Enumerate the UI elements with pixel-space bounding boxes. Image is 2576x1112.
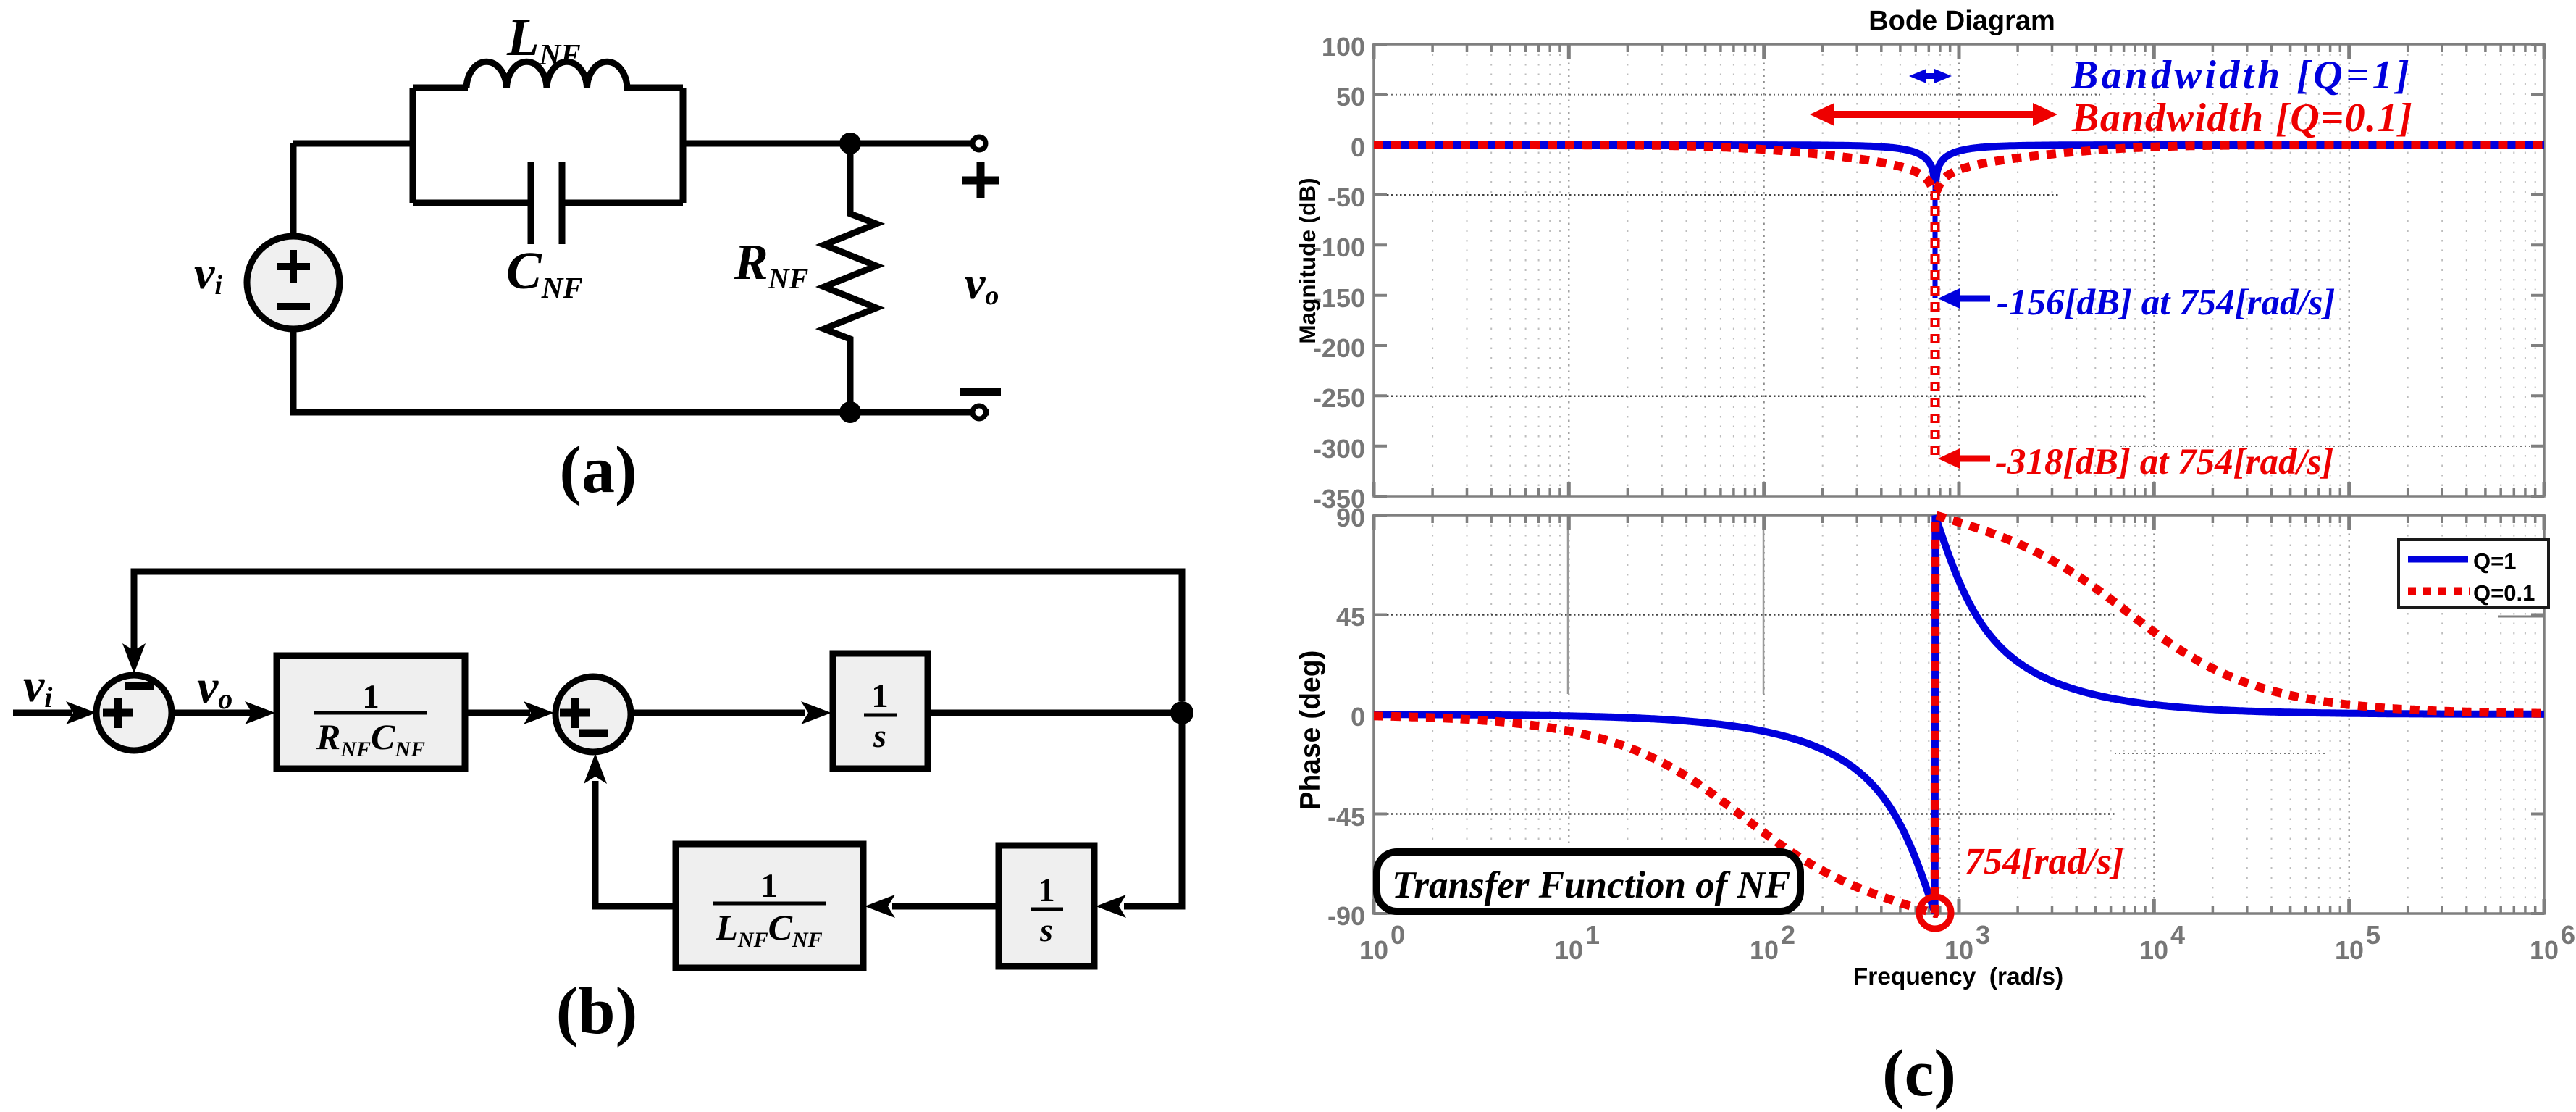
block 1/(RNF CNF)	[277, 656, 465, 769]
wire sum1 to vo	[172, 710, 252, 716]
svg-text:10: 10	[1750, 935, 1779, 965]
arrow into sum1	[66, 701, 96, 724]
svg-text:-156[dB] at 754[rad/s]: -156[dB] at 754[rad/s]	[1997, 283, 2335, 323]
svg-text:Q=1: Q=1	[2473, 548, 2516, 574]
minus mark output	[960, 388, 1001, 396]
svg-text:-100: -100	[1313, 233, 1365, 262]
wire integrator2 to LC block	[892, 903, 999, 910]
svg-text:1: 1	[1585, 920, 1600, 950]
curve magnitude Q=0.1 red notch spike	[1931, 191, 1940, 459]
node junction dot	[1170, 701, 1193, 724]
wire integrator1 to node	[928, 710, 1182, 716]
svg-text:Transfer Function of NF: Transfer Function of NF	[1392, 864, 1790, 906]
svg-text:10: 10	[2335, 935, 2364, 965]
wire source top lead	[290, 143, 297, 236]
wire LC box right edge	[680, 88, 687, 203]
annotation -318 dB arrow	[1938, 448, 1990, 469]
svg-text:(c): (c)	[1882, 1036, 1956, 1110]
wire node down to integrator2	[1124, 713, 1182, 906]
svg-text:45: 45	[1336, 602, 1365, 632]
tick labels	[1313, 32, 2575, 965]
node bottom junction	[839, 401, 861, 423]
svg-text:-318[dB] at 754[rad/s]: -318[dB] at 754[rad/s]	[1995, 442, 2333, 482]
svg-text:Bode Diagram: Bode Diagram	[1868, 6, 2055, 36]
svg-text:s: s	[873, 717, 886, 754]
annotation bandwidth arrow red	[1810, 103, 2057, 126]
svg-text:90: 90	[1336, 503, 1365, 532]
arrow up into sum2 bottom	[584, 753, 607, 784]
plus mark output	[962, 162, 999, 198]
svg-text:0: 0	[1390, 920, 1405, 950]
svg-text:s: s	[1039, 911, 1053, 948]
annotation bandwidth arrow blue	[1909, 69, 1952, 83]
voltage source vi	[247, 236, 340, 329]
svg-text:-150: -150	[1313, 283, 1365, 313]
svg-text:(a): (a)	[559, 432, 637, 506]
summing junction 1	[96, 675, 172, 751]
node top junction	[839, 133, 861, 154]
svg-text:4: 4	[2170, 920, 2185, 950]
block integrator2 1/s	[999, 845, 1094, 966]
arrow into integrator1	[801, 701, 831, 724]
arrow into block1	[245, 701, 275, 724]
axes tick marks	[1374, 44, 2544, 914]
legend	[2399, 540, 2548, 608]
wire bottom return	[290, 409, 989, 416]
capacitor C_NF	[528, 162, 534, 244]
svg-text:Phase (deg): Phase (deg)	[1295, 650, 1326, 810]
curve magnitude Q=1 blue notch spike	[1933, 185, 1938, 298]
svg-text:Bandwidth [Q=1]: Bandwidth [Q=1]	[2071, 53, 2412, 98]
wire outer feedback top	[134, 572, 1182, 701]
arrow down into sum1 top	[122, 643, 146, 674]
svg-text:10: 10	[1359, 935, 1388, 965]
svg-text:0: 0	[1351, 133, 1365, 162]
wire input vi	[13, 710, 72, 716]
arrow into integrator2 right	[1096, 895, 1126, 918]
svg-text:-250: -250	[1313, 383, 1365, 413]
svg-text:2: 2	[1781, 920, 1795, 950]
marker circle 754 rad/s	[1919, 897, 1951, 929]
terminal + output	[973, 137, 986, 150]
curve magnitude Q=1 blue	[1374, 145, 2544, 183]
inductor L_NF	[466, 62, 627, 88]
svg-text:-200: -200	[1313, 333, 1365, 363]
svg-text:Magnitude (dB): Magnitude (dB)	[1294, 177, 1320, 343]
svg-text:-45: -45	[1327, 802, 1365, 832]
wire LC box left edge	[410, 88, 416, 203]
grid lines	[1374, 44, 2544, 914]
axes frames	[1374, 44, 2544, 496]
block 1/(LNF CNF)	[676, 844, 863, 968]
wire sum2 to integrator1	[631, 710, 805, 716]
svg-text:3: 3	[1976, 920, 1990, 950]
svg-text:-50: -50	[1327, 183, 1365, 212]
svg-text:754[rad/s]: 754[rad/s]	[1965, 841, 2124, 882]
svg-text:-90: -90	[1327, 901, 1365, 931]
svg-text:10: 10	[1944, 935, 1973, 965]
svg-text:(b): (b)	[556, 974, 637, 1048]
annotation -156 dB arrow	[1938, 288, 1990, 309]
curve magnitude Q=0.1 red dotted	[1374, 145, 2544, 191]
arrow into sum2	[524, 701, 554, 724]
svg-text:6: 6	[2561, 920, 2575, 950]
svg-text:0: 0	[1351, 702, 1365, 732]
wire block1 to sum2	[465, 710, 530, 716]
svg-text:1: 1	[362, 678, 379, 716]
svg-text:Bandwidth [Q=0.1]: Bandwidth [Q=0.1]	[2071, 96, 2413, 141]
wire LC block up into sum2	[595, 781, 676, 906]
svg-text:1: 1	[1038, 871, 1055, 909]
summing junction 2	[555, 677, 631, 752]
wire box to output node	[683, 141, 979, 147]
svg-text:Frequency (rad/s): Frequency (rad/s)	[1853, 963, 2063, 990]
curve phase Q=0.1 red dotted	[1374, 515, 2544, 914]
svg-text:100: 100	[1322, 32, 1365, 62]
svg-text:10: 10	[2139, 935, 2168, 965]
resistor R_NF	[824, 143, 876, 412]
transfer function label box	[1377, 852, 1800, 911]
svg-text:-300: -300	[1313, 434, 1365, 464]
wire source bottom lead	[290, 329, 297, 415]
curve phase Q=1 blue	[1374, 516, 2544, 914]
wire LC box bottom edge segments	[413, 200, 531, 206]
terminal - output	[973, 406, 986, 419]
svg-text:5: 5	[2366, 920, 2380, 950]
svg-text:50: 50	[1336, 82, 1365, 112]
svg-text:10: 10	[2530, 935, 2559, 965]
svg-text:10: 10	[1554, 935, 1583, 965]
arrow into LC block right	[865, 895, 895, 918]
wire LC box top edge segments	[413, 85, 468, 91]
svg-text:1: 1	[871, 677, 889, 715]
svg-text:1: 1	[760, 867, 778, 905]
svg-text:Q=0.1: Q=0.1	[2473, 580, 2535, 606]
block integrator1 1/s	[833, 653, 928, 769]
wire top from source to LC box	[293, 141, 413, 147]
